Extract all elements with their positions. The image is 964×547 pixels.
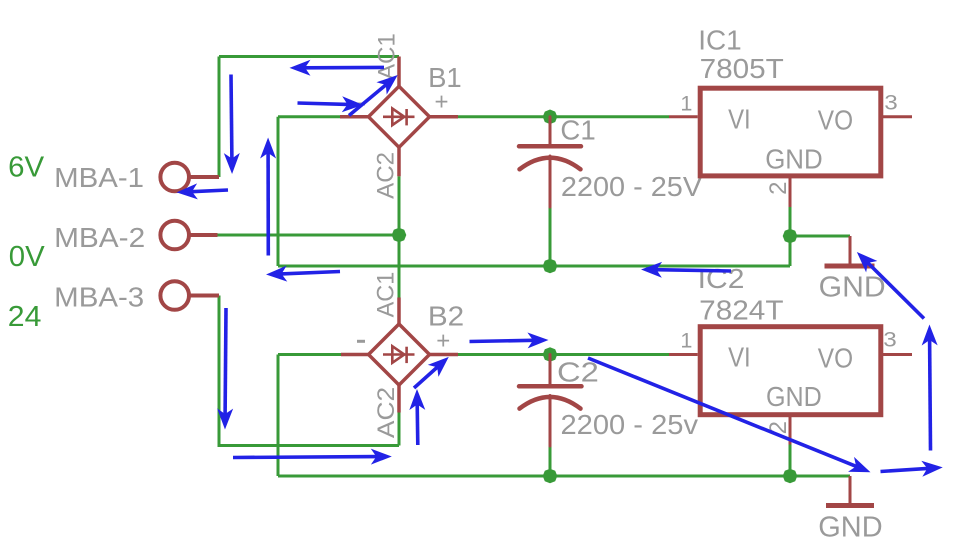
junction at C1 top	[543, 110, 558, 125]
svg-text:IC2: IC2	[698, 263, 745, 294]
bridge rectifier B1	[340, 57, 458, 177]
annotation arrow up beside B2 AC2	[415, 404, 419, 445]
wire C2 bottom lead to bottom rail	[549, 446, 552, 476]
wire B2 minus horizontal	[278, 353, 341, 356]
svg-text:GND: GND	[766, 381, 822, 412]
label B1 minus	[357, 103, 365, 106]
wire B1 minus horizontal	[278, 115, 340, 118]
svg-text:1: 1	[680, 329, 692, 352]
connector MBA-1	[160, 163, 219, 192]
ground symbol GND1	[825, 236, 875, 266]
junction C1 bottom on mid rail	[543, 259, 558, 274]
svg-text:AC2: AC2	[373, 152, 400, 199]
junction IC1 pin2 node	[783, 229, 798, 244]
svg-text:VI: VI	[728, 342, 751, 373]
junction IC2 pin2 on bottom rail	[783, 469, 798, 484]
wire MBA-2 to AC column	[218, 234, 400, 237]
ground symbol GND2	[826, 476, 874, 506]
annotation arrow top left-pointing above B1	[305, 66, 385, 70]
annotation arrow diagonal into B2 plus	[414, 367, 438, 388]
diode inside B2	[383, 346, 415, 363]
svg-text:GND: GND	[765, 143, 823, 174]
annotation arrow right below MBA-3 run	[233, 455, 377, 459]
svg-text:24: 24	[8, 301, 42, 333]
wire bottom ground rail	[278, 475, 850, 478]
wire junction down to mid rail	[789, 236, 792, 266]
svg-text:AC1: AC1	[373, 272, 400, 318]
annotation arrow diagonal into GND1	[868, 263, 925, 319]
svg-text:+: +	[436, 328, 450, 355]
capacitor C1	[519, 117, 581, 207]
wire IC1 pin2 to junction	[789, 207, 792, 236]
annotation arrow down riser MBA-1	[229, 75, 233, 160]
junction C2 top	[543, 347, 558, 362]
annotation arrow left on mid rail (right)	[656, 270, 731, 271]
capacitor C2	[519, 355, 582, 447]
annotation arrow into B1 minus	[298, 103, 349, 104]
svg-text:GND: GND	[819, 272, 886, 304]
regulator IC2 7824T	[669, 327, 912, 445]
connector MBA-2	[160, 221, 217, 250]
wire B1 minus riser down to mid rail	[277, 117, 280, 266]
diode inside B1	[383, 109, 415, 126]
svg-text:6V: 6V	[8, 151, 45, 183]
regulator IC1 7805T	[669, 88, 912, 207]
annotation arrow left on mid rail (left)	[281, 272, 340, 274]
svg-text:7805T: 7805T	[700, 53, 784, 84]
svg-text:C1: C1	[560, 115, 595, 146]
wire IC2 pin2 to bottom rail	[789, 445, 792, 477]
svg-text:+: +	[435, 88, 449, 115]
wire mid ground rail	[278, 265, 790, 268]
svg-text:7824T: 7824T	[699, 295, 783, 326]
annotation arrow up beside B1 minus riser	[266, 153, 270, 256]
annotation arrow diagonal into B1 AC1	[349, 85, 386, 116]
svg-text:3: 3	[884, 92, 898, 115]
junction C2 bottom on bottom rail	[543, 469, 558, 484]
wire top from riser to B1 AC1	[219, 55, 399, 58]
svg-text:VI: VI	[728, 103, 751, 134]
svg-text:GND: GND	[818, 512, 882, 544]
wire C1 bottom lead to mid rail	[549, 207, 552, 266]
annotation arrow up right edge	[928, 340, 933, 451]
junction MBA-2 / AC column	[392, 228, 407, 243]
svg-text:AC2: AC2	[373, 387, 400, 438]
label B2 minus	[357, 340, 365, 343]
svg-text:2: 2	[765, 182, 792, 195]
annotation arrow down riser MBA-3	[223, 308, 227, 415]
svg-text:IC1: IC1	[698, 25, 742, 56]
svg-text:MBA-1: MBA-1	[54, 162, 144, 193]
wire B1 output to C1 junction to IC1 pin1	[458, 115, 669, 118]
svg-text:1: 1	[680, 93, 692, 116]
svg-text:VO: VO	[818, 105, 853, 136]
svg-text:VO: VO	[818, 343, 853, 374]
svg-text:0V: 0V	[9, 241, 46, 273]
annotation arrow right at bottom right	[881, 468, 928, 471]
svg-text:2200 - 25V: 2200 - 25V	[561, 171, 703, 202]
annotation arrow long diagonal to GND2	[588, 358, 857, 467]
wire B2 output to C2 junction to IC2 pin1	[458, 353, 669, 356]
svg-text:MBA-3: MBA-3	[54, 282, 144, 313]
wire MBA-3 riser and run	[219, 296, 399, 446]
svg-text:MBA-2: MBA-2	[54, 222, 145, 253]
svg-text:3: 3	[883, 328, 897, 351]
wire riser MBA-1	[218, 57, 221, 178]
annotation arrow left into MBA-1	[192, 190, 229, 192]
svg-text:2200 - 25v: 2200 - 25v	[561, 409, 699, 440]
wire B1 AC2 to junction to B2 AC1	[398, 176, 401, 297]
wire B2 AC2 to corner	[398, 413, 401, 446]
bridge rectifier B2	[341, 298, 458, 413]
connector MBA-3	[160, 281, 219, 310]
svg-text:AC1: AC1	[373, 33, 400, 80]
wire junction right to GND1	[790, 235, 850, 238]
annotation arrow right into C2 junction	[470, 340, 534, 341]
wire B2 minus riser down to bottom rail	[277, 355, 280, 477]
